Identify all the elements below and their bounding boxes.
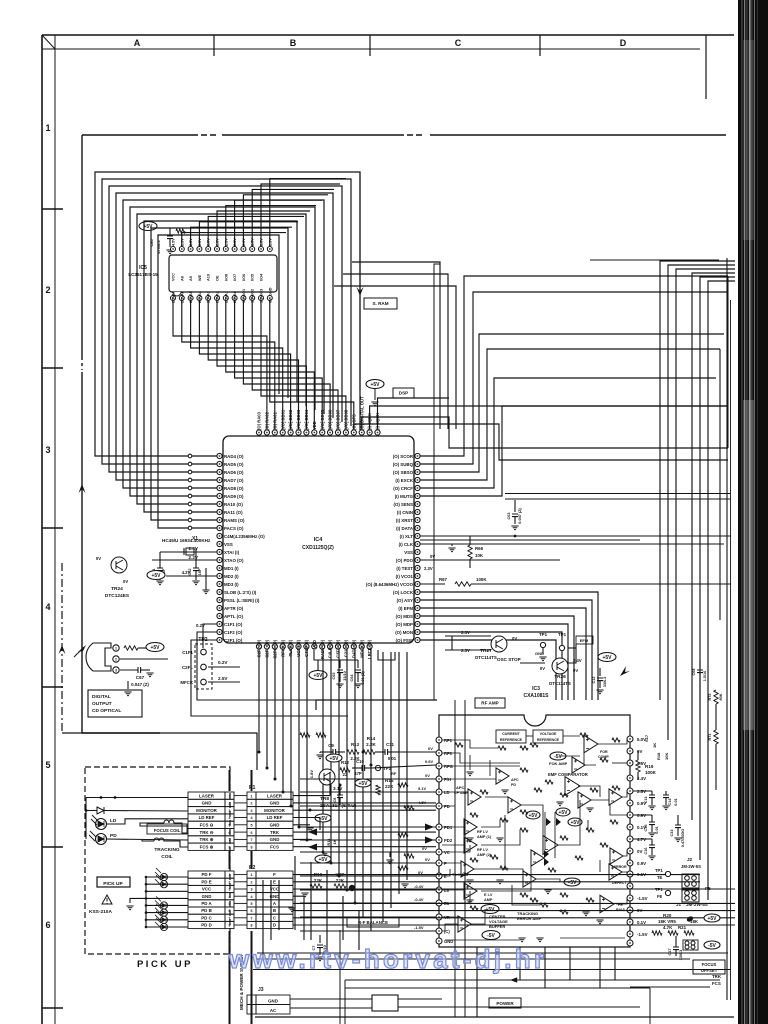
svg-text:BIAS: BIAS	[616, 908, 626, 912]
P2 right table	[256, 871, 293, 878]
svg-text:R21: R21	[678, 925, 687, 930]
svg-text:I/O2: I/O2	[251, 289, 255, 296]
row tick	[42, 208, 63, 210]
svg-text:47P: 47P	[354, 771, 362, 776]
svg-text:80K: 80K	[719, 693, 723, 700]
lower board outline	[315, 700, 317, 710]
EMF comparator triangle	[565, 777, 580, 796]
svg-text:1: 1	[251, 794, 253, 798]
svg-text:AMP: AMP	[484, 898, 493, 902]
R-F BALANCE box	[347, 917, 399, 927]
svg-text:C1F2 (O): C1F2 (O)	[224, 630, 243, 635]
svg-text:VDD: VDD	[312, 640, 317, 649]
IC4 left pin RAD6 (O)	[217, 469, 222, 474]
svg-text:R13: R13	[351, 742, 360, 747]
svg-text:C3TS (O): C3TS (O)	[336, 639, 341, 658]
svg-text:RAD8 (O): RAD8 (O)	[224, 486, 244, 491]
svg-text:0.1V: 0.1V	[637, 920, 646, 925]
svg-text:TR27: TR27	[480, 648, 492, 654]
pickup dashed outline box	[85, 767, 230, 954]
svg-text:[I/O] DB04: [I/O] DB04	[304, 409, 309, 430]
svg-text:+5V: +5V	[370, 382, 380, 388]
C65 capacitor	[339, 660, 341, 668]
svg-text:TR24: TR24	[111, 586, 123, 592]
+5V oval optical	[146, 643, 164, 652]
P1 row link wires	[234, 796, 247, 847]
svg-text:PD1: PD1	[444, 825, 453, 830]
FOCUS COIL box	[147, 824, 187, 834]
svg-text:R14: R14	[367, 736, 376, 741]
svg-text:0.9V: 0.9V	[637, 861, 646, 866]
svg-text:AMP (2): AMP (2)	[477, 853, 492, 857]
svg-text:RA11 (O): RA11 (O)	[224, 510, 243, 515]
svg-text:GND: GND	[202, 801, 212, 806]
svg-text:VCC: VCC	[172, 273, 176, 281]
DIGITAL OUTPUT CD OPTICAL box	[88, 690, 142, 717]
svg-text:RADV (O): RADV (O)	[320, 639, 325, 659]
svg-text:RAD4 (O): RAD4 (O)	[224, 454, 244, 459]
svg-text:R-F BALANCE: R-F BALANCE	[358, 920, 388, 925]
svg-text:DTC114TS: DTC114TS	[475, 655, 497, 660]
RF I-V AMP 2 triangle	[464, 837, 477, 853]
board outline left edge	[82, 135, 160, 733]
IC3 left pin RFG	[436, 763, 442, 769]
warning triangle	[102, 895, 112, 904]
svg-text:3.1V: 3.1V	[333, 786, 343, 791]
svg-text:I/O7: I/O7	[233, 274, 237, 281]
svg-text:VCC: VCC	[270, 887, 280, 892]
IC3 left pin RF0	[436, 750, 442, 756]
IC4 top pin (O) DIGITAL OUT	[359, 430, 364, 435]
svg-text:1: 1	[45, 123, 50, 133]
svg-text:2: 2	[45, 285, 50, 295]
svg-text:5: 5	[251, 824, 253, 828]
optical connector pin 1	[113, 645, 119, 651]
svg-text:B: B	[290, 38, 297, 48]
svg-text:0V: 0V	[123, 579, 128, 584]
IC4 top pin [I/O] DB05	[320, 430, 325, 435]
svg-text:OE: OE	[216, 275, 220, 281]
svg-text:A: A	[134, 38, 141, 48]
svg-text:XTAO (O): XTAO (O)	[224, 558, 244, 563]
svg-text:6: 6	[251, 831, 253, 835]
IC4 right pin VSS	[415, 549, 420, 554]
IC5 pin 5 bottom	[206, 296, 211, 301]
black scan band at right edge	[738, 0, 768, 1024]
-5V oval centre buffer	[482, 931, 500, 940]
svg-text:5: 5	[45, 760, 50, 770]
svg-text:FE: FE	[657, 894, 663, 899]
VOLTAGE REFERENCE box	[533, 730, 563, 743]
IC4 right pin (I) CNIN	[415, 509, 420, 514]
IC3 right pin ASY	[627, 788, 633, 794]
TR8 transistor	[319, 769, 335, 785]
svg-text:6: 6	[251, 909, 253, 913]
svg-text:A9: A9	[189, 276, 193, 281]
svg-text:+5V: +5V	[528, 813, 538, 819]
svg-text:TP2: TP2	[198, 637, 207, 643]
resistor optical supply	[124, 646, 138, 650]
svg-text:RAMS (O): RAMS (O)	[224, 518, 245, 523]
IC4 bottom pin C2FL (O)	[264, 644, 269, 649]
sheet border left verticals	[41, 35, 43, 1024]
IC4 left pin RAD4 (O)	[217, 453, 222, 458]
svg-text:[I/O] DB05: [I/O] DB05	[320, 409, 325, 430]
column tick C-D	[539, 35, 541, 56]
svg-text:3: 3	[251, 888, 253, 892]
svg-text:GND: GND	[268, 999, 278, 1004]
IC4 left pin PACS (O)	[217, 525, 222, 530]
IC4 left pin MD1 (I)	[217, 565, 222, 570]
svg-text:(O) RA01: (O) RA01	[272, 411, 277, 430]
IC5 pin 1 bottom	[171, 296, 176, 301]
IC4 left pin RAD7 (O)	[217, 477, 222, 482]
svg-text:18P: 18P	[198, 568, 202, 575]
svg-text:RAD5 (O): RAD5 (O)	[224, 462, 244, 467]
IC5 pin 22 top	[188, 247, 193, 252]
ground marks near RF wires	[386, 860, 393, 864]
svg-text:C14: C14	[668, 798, 672, 806]
svg-text:DSP: DSP	[399, 391, 408, 396]
column tick D-E	[705, 35, 707, 99]
board right edge verticals	[726, 258, 728, 1000]
svg-text:PD: PD	[110, 833, 117, 839]
IC4 top pin (O) RA02	[264, 430, 269, 435]
IC4 left pin AFTR (O)	[217, 605, 222, 610]
svg-text:2: 2	[251, 880, 253, 884]
IC4 left pin APTL (O)	[217, 613, 222, 618]
wire MD3 to +5V	[166, 575, 217, 577]
svg-text:I/O6: I/O6	[242, 274, 246, 281]
IC4 left pin SLOB (L:2'S) (I)	[217, 589, 222, 594]
IC3 right pin TE	[627, 836, 633, 842]
+5V ovals inside IC3	[526, 811, 540, 819]
+5V oval P1 area	[315, 855, 331, 863]
svg-text:2: 2	[251, 1009, 253, 1013]
IC5 pin 20 top	[206, 247, 211, 252]
vertical wires crossing power area	[454, 700, 456, 1017]
L wires from IC4 top pins to right	[354, 398, 728, 460]
svg-text:3: 3	[251, 809, 253, 813]
svg-text:0.01: 0.01	[674, 798, 678, 805]
svg-text:PD: PD	[444, 804, 450, 809]
C16 capacitor	[649, 845, 655, 848]
IC3 left pin LD	[436, 789, 442, 795]
crystal X1 symbol	[186, 548, 194, 555]
P2 row link wires	[234, 875, 247, 925]
SRAM top pin rising wires	[182, 179, 346, 247]
svg-text:S17: S17	[644, 734, 649, 742]
svg-text:(O) SCOR: (O) SCOR	[393, 454, 414, 459]
IC4 left pin RA11 (O)	[217, 509, 222, 514]
transistor TR24	[111, 557, 127, 573]
wire XTAO	[152, 559, 217, 561]
IC3 RF amp body	[439, 715, 630, 947]
IC3 right pin MIRR	[627, 848, 633, 854]
svg-text:2: 2	[251, 802, 253, 806]
IC4 bottom pin DATA (O)	[351, 644, 356, 649]
svg-text:C11: C11	[386, 742, 394, 747]
svg-text:TRK ⊖: TRK ⊖	[200, 830, 214, 835]
svg-text:7: 7	[251, 838, 253, 842]
IC4 left pin RAD9 (O)	[217, 493, 222, 498]
ground C9	[316, 755, 323, 759]
svg-text:P5: P5	[705, 886, 711, 891]
IC4 top pin [I/O] DB03	[296, 430, 301, 435]
SRAM bottom pin falling wires staircase to IC4	[173, 301, 354, 430]
svg-text:DTC114TS: DTC114TS	[549, 681, 571, 686]
svg-text:C9: C9	[328, 743, 334, 748]
svg-text:0V: 0V	[573, 668, 578, 673]
svg-text:HC45/U 16934.400KHz: HC45/U 16934.400KHz	[162, 538, 211, 543]
svg-text:F: F	[273, 872, 276, 877]
arrowheads on P1 TRK FCS wires	[308, 829, 317, 836]
svg-text:POWER: POWER	[496, 1001, 514, 1006]
IC4 left pin C2F1 (O)	[217, 637, 222, 642]
svg-text:22K: 22K	[385, 784, 394, 789]
svg-text:PICK UP: PICK UP	[103, 881, 123, 887]
IC3 right pin FE	[627, 883, 633, 889]
R12 resistor	[340, 768, 350, 772]
IC3 right pin EFM	[627, 775, 633, 781]
IC4 right pin (O) SCOR	[415, 453, 420, 458]
arrow right of C12	[620, 666, 630, 676]
svg-text:PD B: PD B	[201, 908, 212, 913]
+5V oval near MD3	[147, 571, 165, 580]
IC5 pin 21 top	[197, 247, 202, 252]
IC4 right pin (I) XRST	[415, 517, 420, 522]
wire to RF1 pin	[398, 751, 436, 753]
IC4 top pin (I) SQEX	[367, 430, 372, 435]
capacitor C67	[138, 667, 141, 673]
-5V oval right bottom	[704, 941, 720, 949]
VR2 arrow	[349, 885, 355, 891]
svg-text:(I) CLK: (I) CLK	[399, 542, 414, 547]
svg-text:R20: R20	[663, 913, 672, 918]
svg-text:(O) RA03: (O) RA03	[257, 411, 262, 430]
svg-text:GND: GND	[202, 894, 212, 899]
svg-text:0V: 0V	[430, 554, 435, 559]
IC4 top pin [I/O] DB06	[328, 430, 333, 435]
svg-text:(O) (8.6436MHz) VCOO: (O) (8.6436MHz) VCOO	[366, 582, 414, 587]
IC4 top pin VDD	[312, 430, 317, 435]
IC3 right pin TEP	[627, 812, 633, 818]
svg-text:[I/O] DB08: [I/O] DB08	[344, 409, 349, 430]
svg-text:RF1: RF1	[444, 738, 453, 743]
EFM boxed label	[576, 636, 593, 644]
svg-text:VCC: VCC	[202, 887, 212, 892]
E I-V AMP triangle	[464, 883, 477, 899]
bottom outline wires	[344, 980, 346, 1024]
svg-text:0V: 0V	[425, 773, 430, 778]
IC3 left pin RF1	[436, 737, 442, 743]
svg-text:+5V: +5V	[150, 645, 160, 651]
svg-text:CXA1081S: CXA1081S	[523, 693, 549, 699]
IC3 right pin OSO	[627, 940, 633, 946]
+5V oval centre buffer	[481, 905, 499, 914]
DEFECT triangle	[609, 864, 622, 880]
svg-text:XTAI (I): XTAI (I)	[224, 550, 240, 555]
IC4 left pin C1F1 (O)	[217, 621, 222, 626]
junction dots middle band	[258, 751, 261, 754]
IC4 bottom pin RFCK (I)	[280, 644, 285, 649]
ground optical	[124, 692, 131, 696]
verticals from RF bottom to power rails	[477, 947, 615, 1017]
svg-text:www.rtv-horvat-dj.hr: www.rtv-horvat-dj.hr	[228, 944, 544, 974]
FOCUS OFFSET box	[693, 960, 725, 974]
tracking error amp triangle	[523, 871, 536, 887]
svg-text:(I) XLT: (I) XLT	[400, 534, 414, 539]
svg-text:R66: R66	[475, 546, 484, 551]
IC3 right pin CP	[627, 824, 633, 830]
svg-text:0.2V: 0.2V	[218, 660, 228, 665]
C8 capacitor	[337, 795, 343, 798]
wire PDO	[420, 559, 560, 561]
IC3 right pin OSI	[627, 931, 633, 937]
svg-text:C8: C8	[333, 798, 337, 803]
IC4 bottom pin C2F2 (O)	[256, 644, 261, 649]
IC4 left pin RAMS (O)	[217, 517, 222, 522]
C9 capacitor	[333, 749, 336, 755]
svg-text:TRK: TRK	[270, 830, 280, 835]
top single bus wire	[590, 259, 719, 261]
svg-text:GND: GND	[268, 287, 272, 296]
svg-text:I/O3: I/O3	[260, 289, 264, 296]
grounds right of IC3	[648, 806, 655, 810]
J3 connector table	[256, 995, 290, 1005]
svg-text:FCS ⊕: FCS ⊕	[200, 844, 214, 849]
address bus nested loops (SRAM to IC4)	[95, 172, 360, 528]
svg-text:PD F: PD F	[201, 872, 211, 877]
IC5 pin 23 top	[179, 247, 184, 252]
svg-text:5.1V: 5.1V	[418, 786, 427, 791]
focus coil symbol	[146, 820, 177, 823]
svg-text:4.5V: 4.5V	[172, 238, 176, 246]
svg-text:J2: J2	[687, 857, 693, 862]
IC4 top pin [I/O] DB01	[280, 430, 285, 435]
IC4 right pin (O) ASY	[415, 597, 420, 602]
svg-text:+5V: +5V	[358, 781, 368, 787]
IC5 pin 9 bottom	[241, 296, 246, 301]
wire optical pin2	[120, 658, 168, 660]
wires right margin	[700, 680, 716, 790]
svg-text:APC: APC	[511, 778, 519, 782]
svg-text:CD OPTICAL: CD OPTICAL	[92, 708, 121, 714]
svg-text:5: 5	[251, 902, 253, 906]
svg-text:2.5V: 2.5V	[218, 676, 228, 681]
IC4 bottom pin C2PO (O)	[272, 644, 277, 649]
svg-text:33/6.3: 33/6.3	[603, 677, 607, 688]
S.RAM label box	[364, 298, 397, 309]
svg-text:LD: LD	[444, 790, 450, 795]
svg-text:C1F1: C1F1	[182, 650, 193, 655]
svg-text:MONITOR: MONITOR	[264, 808, 285, 813]
P2 photodiodes A B C D	[160, 902, 167, 909]
column tick A-B	[213, 35, 215, 56]
svg-text:C4LR (O): C4LR (O)	[328, 639, 333, 658]
P5 connector box upper	[682, 874, 699, 888]
svg-text:I/O1: I/O1	[242, 289, 246, 296]
IC3 internal resistors	[455, 733, 620, 914]
IC4 right pin (O) LOCK	[415, 589, 420, 594]
svg-text:0V: 0V	[96, 556, 101, 561]
IC4 right pin (I) EFM	[415, 605, 420, 610]
ground P1	[306, 828, 313, 832]
svg-text:0V: 0V	[540, 666, 545, 671]
wires C1F1 C1F2 C2F1 to TP2	[203, 624, 217, 648]
diodes centre	[546, 818, 561, 826]
IC4 right pin (I) MUTG	[415, 493, 420, 498]
IC4 bottom pin RADV (O)	[320, 644, 325, 649]
IC4 right pin (O) PDO	[415, 557, 420, 562]
svg-text:EFM: EFM	[580, 638, 589, 643]
C10 capacitor	[362, 765, 365, 771]
svg-text:IC5: IC5	[139, 265, 147, 271]
right edge vertical wire	[727, 276, 729, 448]
svg-text:10K: 10K	[475, 553, 484, 558]
IC5 pin 14 top	[259, 247, 264, 252]
svg-text:C1F1 (O): C1F1 (O)	[224, 622, 243, 627]
IC4 left pin MD2 (I)	[217, 573, 222, 578]
svg-text:-1.5V: -1.5V	[637, 896, 648, 901]
centre opamp lower	[531, 850, 544, 866]
IC3 left pin P/H	[436, 776, 442, 782]
+5V oval near DSP	[366, 380, 384, 389]
IC3 right pin AGC	[627, 800, 633, 806]
+5V oval right bottom	[704, 914, 720, 922]
svg-text:LD REF: LD REF	[199, 815, 215, 820]
C11 capacitor	[385, 749, 388, 755]
svg-text:GND: GND	[270, 823, 280, 828]
svg-text:MFCK: MFCK	[180, 680, 194, 685]
svg-text:-1.5V: -1.5V	[637, 932, 648, 937]
wire VDD bottom to caps	[314, 650, 358, 660]
capacitor C62	[193, 568, 199, 571]
C17 capacitor	[673, 947, 679, 950]
svg-text:E: E	[273, 879, 276, 884]
svg-text:VSS: VSS	[224, 542, 233, 547]
svg-text:(O) SUBQ: (O) SUBQ	[393, 462, 414, 467]
svg-text:GND: GND	[270, 894, 280, 899]
IC3 left pin GND	[436, 938, 442, 944]
svg-text:0.01: 0.01	[388, 756, 397, 761]
svg-text:AC: AC	[270, 1008, 277, 1013]
svg-text:DATA (O): DATA (O)	[351, 639, 356, 658]
svg-text:C2FL: C2FL	[182, 665, 193, 670]
IC3 left pin PD1	[436, 824, 442, 830]
svg-text:33/6.3: 33/6.3	[679, 950, 683, 961]
svg-text:0.047 (Z): 0.047 (Z)	[518, 508, 522, 524]
R19 resistor	[636, 760, 640, 772]
svg-text:8: 8	[251, 924, 253, 928]
svg-text:18K VR5: 18K VR5	[658, 919, 676, 924]
svg-text:LD: LD	[110, 818, 117, 824]
svg-text:PACS (O): PACS (O)	[224, 526, 244, 531]
long horizontal wires behind watermark	[257, 952, 728, 954]
R20 resistors	[652, 931, 662, 935]
svg-text:RAD9 (O): RAD9 (O)	[224, 494, 244, 499]
svg-text:FCS: FCS	[712, 981, 721, 986]
optical connector pin 3	[113, 667, 119, 673]
IC4 left pin MD3 (I)	[217, 581, 222, 586]
FOR COMPARATOR opamp	[584, 735, 598, 752]
svg-text:LC3517BS-15: LC3517BS-15	[128, 272, 158, 277]
svg-text:REFERENCE: REFERENCE	[500, 738, 523, 742]
IC4 bottom pin vertical wires	[259, 649, 407, 960]
IC3 left pin (C)	[436, 928, 442, 934]
right vertical bus bundle	[660, 261, 735, 900]
svg-text:S. RAM: S. RAM	[372, 301, 388, 306]
